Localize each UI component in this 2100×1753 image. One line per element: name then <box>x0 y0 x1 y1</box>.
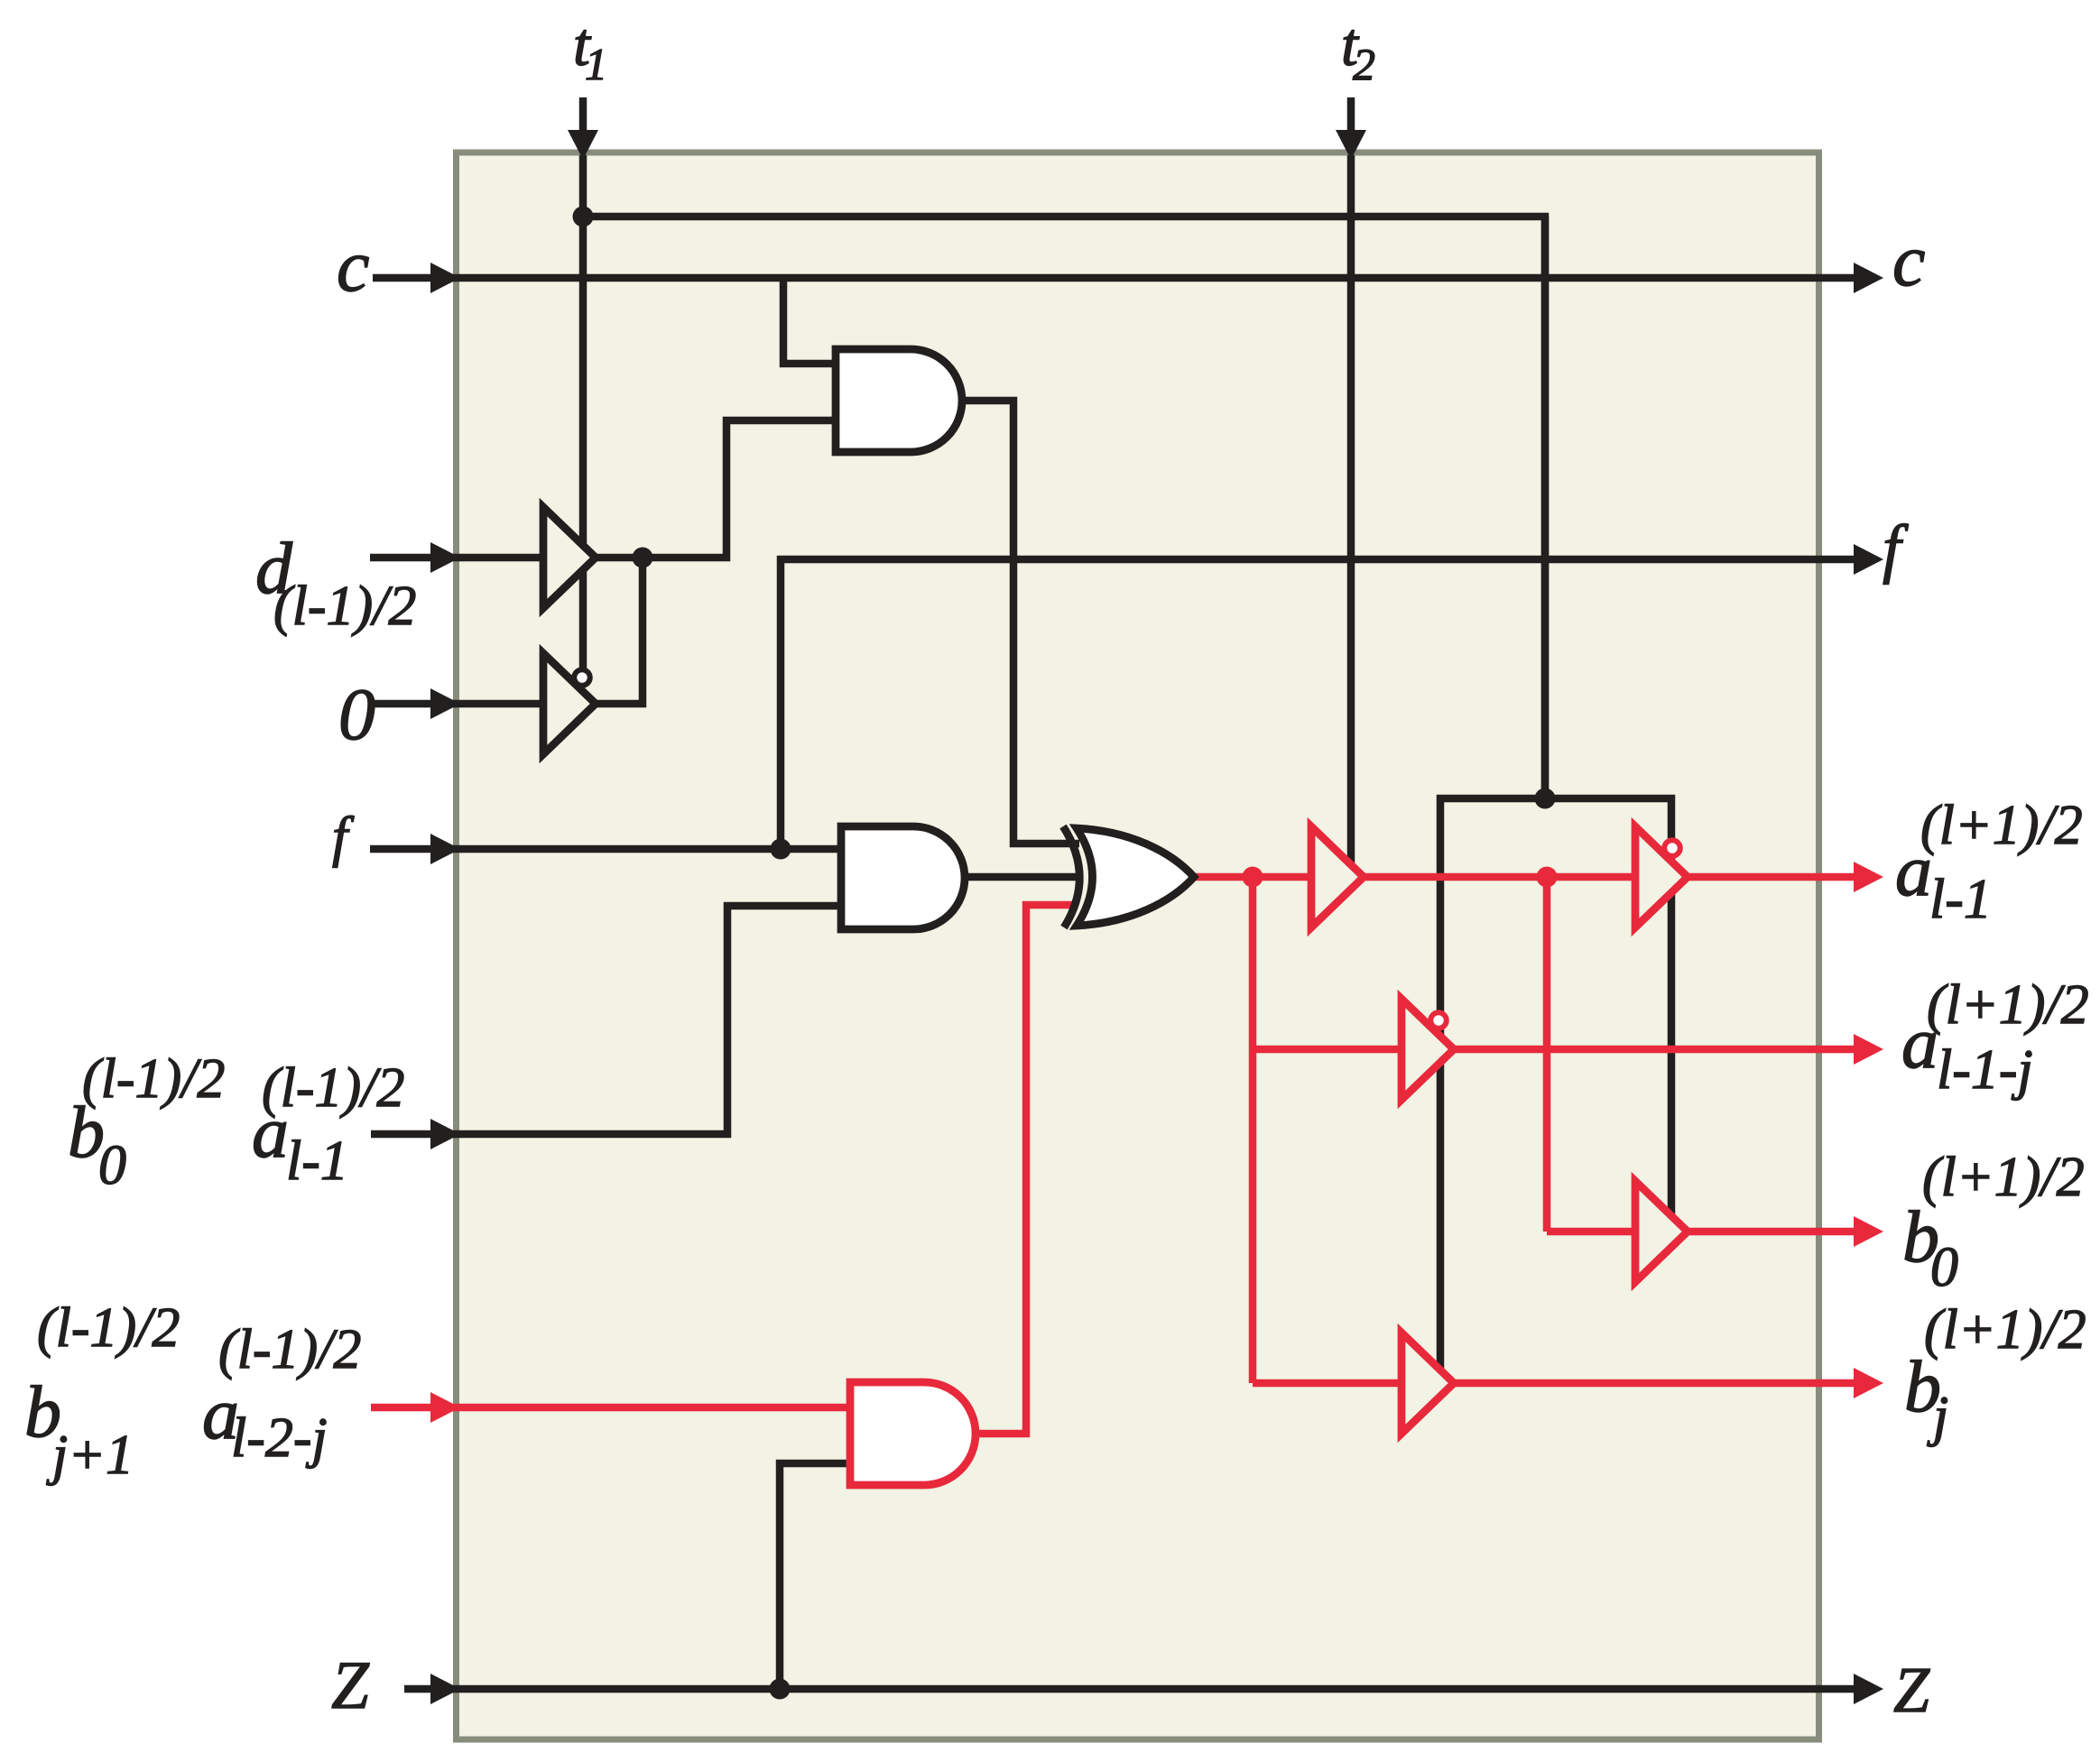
svg-text:0: 0 <box>1930 1237 1958 1298</box>
svg-text:(l-1)/2: (l-1)/2 <box>218 1319 361 1380</box>
svg-text:Z: Z <box>331 1648 370 1723</box>
svg-text:a: a <box>252 1091 289 1173</box>
svg-text:a: a <box>1895 829 1932 911</box>
svg-text:l-1: l-1 <box>286 1130 348 1192</box>
svg-text:(l+1)/2: (l+1)/2 <box>1920 795 2083 856</box>
svg-text:Z: Z <box>1893 1654 1930 1726</box>
svg-text:j+1: j+1 <box>46 1425 134 1486</box>
svg-text:l-1: l-1 <box>1929 869 1992 930</box>
svg-text:c: c <box>337 225 369 307</box>
svg-text:(l-1)/2: (l-1)/2 <box>273 576 416 637</box>
svg-text:f: f <box>1883 512 1909 585</box>
svg-text:(l+1)/2: (l+1)/2 <box>1927 974 2089 1036</box>
svg-text:2: 2 <box>1353 39 1375 89</box>
svg-text:f: f <box>332 807 355 868</box>
svg-text:0: 0 <box>98 1135 126 1196</box>
svg-text:0: 0 <box>338 673 375 755</box>
svg-text:1: 1 <box>585 39 607 89</box>
svg-text:(l-1)/2: (l-1)/2 <box>37 1297 180 1359</box>
svg-text:l-1-j: l-1-j <box>1937 1039 2033 1101</box>
svg-text:(l+1)/2: (l+1)/2 <box>1922 1147 2085 1208</box>
svg-text:l-2-j: l-2-j <box>231 1407 328 1469</box>
svg-text:a: a <box>1901 1001 1938 1084</box>
svg-text:(l+1)/2: (l+1)/2 <box>1924 1299 2086 1361</box>
svg-text:c: c <box>1892 219 1925 301</box>
